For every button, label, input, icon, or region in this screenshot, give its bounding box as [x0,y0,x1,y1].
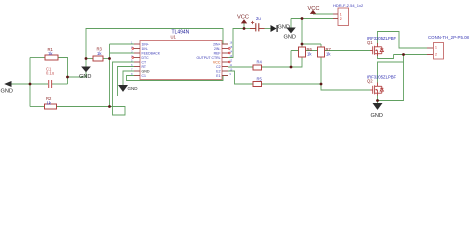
svg-text:GND: GND [79,74,91,80]
svg-text:U1: U1 [171,34,177,39]
svg-text:GND: GND [128,86,139,91]
svg-text:GND: GND [278,25,290,31]
svg-text:0.1u: 0.1u [46,71,55,76]
svg-text:E2: E2 [216,69,220,73]
svg-text:GND: GND [142,69,150,73]
svg-text:2: 2 [435,53,437,57]
svg-text:FEEDBACK: FEEDBACK [142,51,161,55]
svg-text:2: 2 [340,17,342,21]
svg-text:1IN+: 1IN+ [142,42,149,46]
svg-text:Q1: Q1 [367,40,373,45]
svg-text:VCC: VCC [237,14,249,20]
svg-text:2IN-: 2IN- [214,47,221,51]
svg-text:R5: R5 [257,77,263,82]
svg-text:GND: GND [371,113,383,119]
svg-text:GND: GND [1,89,13,95]
svg-text:E1: E1 [216,74,220,78]
svg-text:1: 1 [435,46,437,50]
svg-text:HDR-F-2.54_1x2: HDR-F-2.54_1x2 [333,3,364,8]
svg-text:C1: C1 [142,74,146,78]
svg-text:2u: 2u [256,16,261,21]
svg-text:CONN-TH_2P-P5.08: CONN-TH_2P-P5.08 [428,35,470,40]
svg-text:C2: C2 [216,65,220,69]
svg-text:REF: REF [214,51,221,55]
svg-text:Q2: Q2 [367,79,373,84]
svg-text:R4: R4 [257,60,263,65]
svg-text:1: 1 [340,12,342,16]
svg-text:1IN-: 1IN- [142,47,149,51]
svg-text:OUTPUT CTRL: OUTPUT CTRL [196,56,220,60]
svg-text:DTC: DTC [142,56,150,60]
svg-text:2IN+: 2IN+ [213,42,220,46]
svg-text:GND: GND [284,34,296,40]
svg-text:VCC: VCC [213,60,221,64]
